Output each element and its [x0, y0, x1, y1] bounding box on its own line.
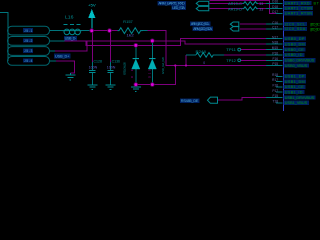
svg-text:J5-2: J5-2 [24, 39, 33, 43]
svg-text:USB0_VBUS: USB0_VBUS [285, 64, 308, 68]
svg-text:D10: D10 [148, 69, 152, 78]
svg-text:F16: F16 [273, 84, 279, 88]
svg-text:P16: P16 [272, 52, 278, 56]
svg-text:J5-4: J5-4 [24, 59, 33, 63]
svg-text:TP12: TP12 [226, 59, 236, 63]
svg-text:T18: T18 [273, 99, 279, 103]
svg-text:N18: N18 [272, 41, 278, 45]
svg-text:BT: BT [314, 1, 320, 5]
svg-text:ARM_I2C0_SDA: ARM_I2C0_SDA [193, 27, 212, 31]
svg-text:LED_STA: LED_STA [172, 6, 185, 10]
svg-text:ARM_I2C0_SCL: ARM_I2C0_SCL [191, 22, 210, 26]
svg-text:+5V: +5V [88, 3, 96, 8]
svg-text:0: 0 [203, 61, 205, 65]
svg-text:33: 33 [259, 7, 263, 11]
svg-text:R157: R157 [123, 20, 133, 24]
svg-text:USB0_DP: USB0_DP [285, 37, 305, 41]
svg-text:33: 33 [259, 2, 263, 6]
svg-text:USB0_DRVVBUS: USB0_DRVVBUS [285, 59, 315, 63]
svg-text:P17: P17 [272, 89, 278, 93]
svg-text:100N: 100N [89, 66, 98, 70]
svg-text:D18: D18 [272, 5, 278, 9]
svg-text:USB1_DP: USB1_DP [285, 75, 305, 79]
svg-text:R18: R18 [272, 73, 278, 77]
svg-text:1k2: 1k2 [126, 34, 133, 38]
svg-text:USB1_ID: USB1_ID [285, 90, 303, 94]
svg-text:F15: F15 [273, 94, 279, 98]
svg-text:USB0_DM: USB0_DM [285, 42, 305, 46]
svg-text:D17: D17 [272, 10, 278, 14]
svg-text:C16: C16 [272, 21, 278, 25]
svg-text:I2C0_SDA: I2C0_SDA [285, 27, 306, 31]
svg-text:N17: N17 [272, 35, 278, 39]
svg-text:GSD_GA_026: GSD_GA_026 [123, 62, 127, 75]
svg-text:C17: C17 [272, 25, 278, 29]
svg-text:UART1_RTSN: UART1_RTSN [285, 12, 312, 16]
svg-text:UART1_RXD: UART1_RXD [285, 1, 310, 5]
svg-text:I2C0_SCL: I2C0_SCL [285, 22, 306, 26]
svg-text:USB_D-: USB_D- [65, 37, 77, 41]
svg-text:C136: C136 [112, 59, 121, 63]
svg-text:100N: 100N [107, 66, 116, 70]
svg-text:R17: R17 [272, 78, 278, 82]
svg-text:C128: C128 [94, 59, 103, 63]
svg-text:L16: L16 [65, 14, 74, 19]
svg-text:USB1_CE: USB1_CE [285, 85, 304, 89]
svg-text:USB1_DRVVBUS: USB1_DRVVBUS [285, 96, 315, 100]
svg-text:USB1_DM: USB1_DM [285, 80, 305, 84]
svg-text:USB0_CE: USB0_CE [285, 48, 304, 52]
svg-text:ARM_UART1_RXD: ARM_UART1_RXD [158, 2, 185, 6]
svg-text:TP11: TP11 [226, 48, 236, 52]
svg-text:UART1_CTSN: UART1_CTSN [285, 6, 312, 10]
svg-text:RS485_DE: RS485_DE [181, 99, 199, 103]
svg-text:F16: F16 [273, 57, 279, 61]
svg-text:R248: R248 [196, 50, 206, 54]
svg-text:[I2C0_SC: [I2C0_SC [311, 23, 320, 27]
svg-text:J5-1: J5-1 [24, 29, 33, 33]
svg-text:J5-3: J5-3 [24, 49, 33, 53]
svg-text:USB_D+: USB_D+ [55, 55, 70, 59]
svg-text:GSD_GA_026: GSD_GA_026 [161, 57, 165, 74]
svg-text:[I2C0_SD: [I2C0_SD [311, 27, 320, 31]
svg-text:USB1_VBUS: USB1_VBUS [285, 101, 308, 105]
svg-text:AR19-C: AR19-C [228, 2, 243, 6]
svg-text:AR19-D: AR19-D [228, 7, 243, 11]
svg-text:D16: D16 [272, 0, 278, 4]
svg-text:USB0_ID: USB0_ID [285, 53, 303, 57]
svg-text:P15: P15 [272, 62, 278, 66]
svg-text:M15: M15 [272, 46, 278, 50]
